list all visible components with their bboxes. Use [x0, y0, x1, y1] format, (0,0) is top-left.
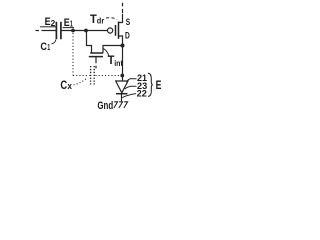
dotted leader for Cx [74, 79, 87, 85]
gate bar [89, 56, 103, 58]
leader under E2 [40, 26, 56, 28]
wire left horizontal to capacitor C1 [42, 30, 57, 32]
label Tint [108, 53, 123, 68]
capacitor Cx dotted plates [91, 66, 95, 85]
svg-text:22: 22 [137, 87, 147, 98]
capacitor Cx dotted branch: vertical wire from J1 [72, 33, 74, 76]
channel bar [118, 22, 120, 39]
svg-text:C: C [60, 78, 67, 92]
leader under E1 [63, 27, 74, 29]
leader for C1 [52, 40, 56, 45]
svg-text:E: E [156, 78, 162, 92]
leader for Tint [104, 49, 109, 57]
node junction dot J4 (Cx tap) [120, 74, 124, 78]
svg-text:E: E [64, 17, 70, 29]
wire capacitor to gate of Tdr [62, 30, 108, 32]
svg-text:Gnd: Gnd [97, 100, 113, 112]
brace for E group [148, 73, 153, 96]
right arm to J3 [103, 46, 123, 53]
label C1 with leader [40, 41, 50, 53]
node junction dot J1 [71, 29, 75, 33]
label E2 with leader [45, 16, 56, 28]
label Cx [60, 78, 72, 92]
node junction dot J3 (drain node) [121, 44, 125, 48]
transistor Tdr (PMOS) [108, 14, 123, 46]
svg-text:dr: dr [97, 16, 105, 26]
svg-text:int: int [114, 58, 123, 68]
gate stub [95, 57, 97, 63]
left arm from J2 [87, 31, 92, 53]
label E1 with leader [64, 17, 73, 29]
ground symbol (three slashes) [114, 102, 128, 108]
svg-text:S: S [126, 17, 131, 28]
capacitor C1 plates [56, 22, 61, 39]
label Tdr [90, 12, 105, 26]
svg-text:1: 1 [47, 42, 50, 52]
drain arm [119, 36, 123, 46]
transistor Tint (lateral NMOS) [87, 31, 123, 68]
wire drain node down to diode [122, 46, 124, 81]
diode 23 (photodiode) triangle [116, 81, 128, 93]
capacitor Cx dotted wire to J4 [95, 75, 120, 77]
wire left stub (dash) [36, 30, 40, 32]
svg-text:D: D [125, 31, 130, 42]
gate bubble [108, 28, 113, 33]
capacitor Cx dotted wire to left plate [73, 75, 90, 77]
gate stub dash continuation [95, 66, 97, 69]
svg-text:x: x [67, 81, 72, 91]
gate bar [115, 25, 117, 36]
channel bar [90, 52, 103, 54]
diode cathode bar [116, 93, 127, 95]
node junction dot J2 [84, 29, 88, 33]
dashed wire above source S [122, 3, 124, 13]
wire diode to ground [121, 94, 123, 102]
source arm [119, 14, 123, 23]
dashed leader for Tdr [106, 18, 117, 20]
